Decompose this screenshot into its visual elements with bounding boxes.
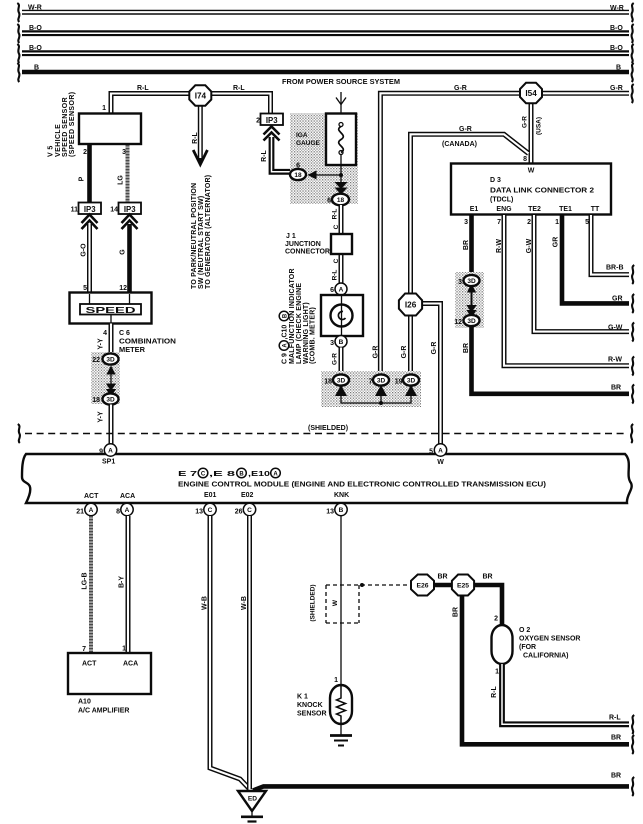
svg-text:3: 3 — [458, 279, 462, 286]
connector octagon E25 — [452, 575, 474, 596]
wire BR-B from TT — [591, 215, 629, 275]
svg-text:W-R: W-R — [28, 5, 42, 12]
svg-text:(SHIELDED): (SHIELDED) — [310, 584, 317, 621]
svg-text:LG-B: LG-B — [82, 572, 89, 589]
svg-text:E26: E26 — [416, 583, 428, 590]
connector 21 A pin — [85, 503, 97, 515]
svg-text:TO PARK/NEUTRAL POSITION: TO PARK/NEUTRAL POSITION — [191, 183, 198, 289]
wire BR E26 to E25 — [434, 583, 452, 588]
svg-text:(TDCL): (TDCL) — [490, 197, 513, 204]
junction chevron arrow up into IP3 11 — [82, 215, 98, 230]
connector 3 B circle MIL — [335, 336, 347, 348]
node B-O1 right brace — [632, 24, 634, 43]
wire B-O bus 2 — [22, 50, 629, 56]
svg-text:SENSOR: SENSOR — [297, 711, 327, 718]
svg-text:ENGINE CONTROL MODULE (ENGINE: ENGINE CONTROL MODULE (ENGINE AND ELECTR… — [178, 482, 546, 489]
svg-text:8: 8 — [116, 509, 120, 516]
svg-text:GR: GR — [553, 237, 560, 248]
svg-text:C 6: C 6 — [119, 330, 130, 337]
component ECM box — [22, 454, 632, 503]
svg-text:R-L: R-L — [233, 85, 245, 92]
svg-text:C: C — [208, 507, 213, 514]
wire G-O to combination meter pin5 — [87, 224, 92, 292]
connector octagon I26 — [399, 294, 422, 316]
wire to gauge junction — [316, 174, 341, 176]
wire G-R I26 bottom to 3D — [408, 314, 413, 371]
svg-text:B: B — [339, 339, 344, 346]
svg-text:CALIFORNIA): CALIFORNIA) — [523, 653, 569, 660]
svg-text:3: 3 — [464, 219, 468, 226]
svg-text:A: A — [89, 507, 94, 514]
ground bar 2 — [248, 820, 257, 822]
wire G-R CANADA from corner into USA line — [411, 134, 529, 294]
svg-text:B-Y: B-Y — [119, 576, 126, 588]
connector 8 A pin — [121, 503, 133, 515]
svg-text:G-W: G-W — [608, 325, 623, 332]
svg-text:C: C — [333, 258, 340, 263]
svg-text:(COMB. METER): (COMB. METER) — [310, 307, 317, 364]
svg-text:G-R: G-R — [459, 126, 472, 133]
svg-text:A: A — [438, 448, 443, 455]
wire B thick from ED ground to right — [253, 786, 629, 790]
wire G-R from MIL 3B to 3D — [339, 348, 344, 372]
svg-text:I74: I74 — [195, 92, 207, 101]
svg-text:FROM POWER SOURCE SYSTEM: FROM POWER SOURCE SYSTEM — [282, 79, 400, 86]
svg-text:METER: METER — [119, 347, 145, 354]
connector 3D pin 12 — [464, 315, 480, 326]
svg-text:3D: 3D — [106, 357, 115, 364]
svg-text:BR-B: BR-B — [606, 265, 624, 272]
svg-text:(SPEED SENSOR): (SPEED SENSOR) — [69, 92, 76, 158]
svg-text:BR: BR — [463, 343, 470, 353]
dashed shielded separator line — [25, 433, 626, 435]
lamp filament — [338, 311, 345, 319]
svg-text:TE1: TE1 — [559, 206, 572, 213]
svg-text:E02: E02 — [241, 492, 254, 499]
svg-text:IP3: IP3 — [84, 205, 96, 214]
connector 3D pin 18 row — [333, 374, 349, 385]
svg-text:ENG: ENG — [496, 206, 512, 213]
svg-text:G-R: G-R — [401, 346, 408, 359]
svg-text:G-W: G-W — [526, 238, 533, 253]
svg-text:,C10: ,C10 — [282, 325, 289, 340]
wire B-Y from pin 8A — [126, 516, 131, 653]
svg-text:E25: E25 — [457, 583, 469, 590]
node G-R right brace — [632, 84, 634, 103]
svg-text:3D: 3D — [467, 278, 476, 285]
wire B bus — [22, 70, 629, 75]
wire LG-B from pin 21A — [89, 516, 93, 653]
svg-text:A: A — [283, 343, 289, 348]
svg-text:R-L: R-L — [491, 685, 498, 697]
wire W-B right from pin 26C — [247, 516, 252, 789]
svg-text:3: 3 — [122, 149, 126, 156]
connector 6 A circle MIL — [335, 283, 347, 295]
component SPEED inner box — [80, 304, 141, 315]
svg-text:A: A — [125, 507, 130, 514]
svg-text:A: A — [108, 448, 113, 455]
stipple patch meter connectors — [91, 352, 120, 404]
svg-text:5: 5 — [429, 449, 433, 456]
svg-text:TE2: TE2 — [528, 206, 541, 213]
svg-text:8: 8 — [523, 156, 527, 163]
svg-text:R-W: R-W — [608, 357, 622, 364]
shield dashed box knock — [326, 585, 410, 623]
lamp circle — [331, 305, 353, 327]
connector I8 left — [290, 169, 306, 180]
svg-text:5: 5 — [585, 219, 589, 226]
junction arrow up into 18 3D — [335, 385, 347, 396]
svg-text:3D: 3D — [337, 378, 346, 385]
svg-text:IGA: IGA — [296, 132, 308, 139]
wire W-B left from pin 13C — [210, 516, 251, 790]
svg-text:13: 13 — [195, 509, 203, 516]
node BR bottom right brace — [632, 735, 634, 754]
svg-text:E 7: E 7 — [178, 471, 197, 478]
svg-text:D 3: D 3 — [490, 177, 501, 184]
node dashed right brace — [631, 424, 633, 443]
wire stub pin5 to inner box — [89, 294, 91, 304]
svg-text:3: 3 — [330, 340, 334, 347]
svg-text:5: 5 — [83, 285, 87, 292]
connector 3D pin 7 row — [373, 374, 389, 385]
wire GR from TE1 — [562, 215, 629, 303]
svg-text:1: 1 — [334, 677, 338, 684]
connector IP3 pin 14 — [119, 203, 142, 215]
stipple patch 3D row — [321, 371, 421, 407]
node R-L right brace — [632, 715, 634, 734]
svg-text:2: 2 — [256, 118, 260, 125]
svg-text:7: 7 — [369, 379, 373, 386]
junction arrow up into 7 3D — [375, 385, 387, 396]
wire BR from E1 to 3D pair — [469, 215, 474, 275]
wire G-R top bus from corner to right — [380, 93, 629, 374]
svg-text:G-R: G-R — [522, 116, 529, 128]
svg-text:IP3: IP3 — [266, 116, 278, 125]
svg-text:4: 4 — [103, 330, 107, 337]
svg-text:B: B — [339, 507, 344, 514]
connector 3D pin 19 row — [403, 374, 419, 385]
svg-text:O 2: O 2 — [519, 627, 530, 634]
connector octagon I74 — [189, 85, 211, 105]
svg-text:BR: BR — [453, 607, 460, 617]
node bottom BR right brace — [632, 777, 634, 796]
connector 26 C pin — [243, 503, 255, 515]
ground ED triangle — [238, 791, 266, 811]
svg-text:BR: BR — [463, 240, 470, 250]
svg-text:SW (NEUTRAL START SW): SW (NEUTRAL START SW) — [198, 196, 205, 289]
junction arrow down to park/neutral — [193, 150, 207, 165]
svg-text:18: 18 — [294, 172, 302, 179]
component J1 junction connector box — [331, 234, 352, 254]
label C 9A C10B rotated — [279, 311, 289, 364]
svg-text:CONNECTOR: CONNECTOR — [285, 249, 330, 256]
wire R-L from IP3 2 down to I8 connector — [272, 137, 292, 172]
svg-text:BR: BR — [611, 385, 621, 392]
label E 7C E 8B E10A — [178, 468, 280, 478]
svg-text:Y-Y: Y-Y — [98, 338, 105, 350]
svg-text:22: 22 — [92, 357, 100, 364]
connector 5 A circle W — [434, 444, 446, 456]
wire R-L from O2 pin1 — [502, 664, 629, 724]
svg-text:COMBINATION: COMBINATION — [119, 339, 176, 346]
wire LG from speed sensor pin3 — [126, 145, 130, 203]
svg-text:SPEED: SPEED — [86, 306, 136, 315]
wire BR E25 to O2 sensor — [474, 585, 502, 625]
svg-text:18: 18 — [337, 197, 345, 204]
connector octagon E26 — [411, 575, 434, 596]
knock sensor zigzag — [337, 686, 346, 723]
svg-text:B: B — [239, 471, 244, 477]
svg-text:,E 8: ,E 8 — [209, 471, 235, 478]
svg-text:G: G — [120, 249, 127, 255]
svg-text:LAMP (CHECK ENGINE: LAMP (CHECK ENGINE — [296, 283, 303, 364]
svg-text:ACT: ACT — [84, 493, 99, 500]
wire R-L below I74 with down arrow — [198, 105, 203, 160]
node junction dot 3D bar — [379, 401, 383, 405]
svg-text:W: W — [528, 168, 535, 175]
wire stub pin12 to inner box — [129, 294, 131, 304]
wire Y-Y to ECM SP1 — [109, 405, 114, 445]
svg-text:19: 19 — [395, 379, 403, 386]
svg-text:ACT: ACT — [82, 661, 97, 668]
component C6 combination meter box — [70, 293, 152, 324]
junction arrow down feed — [336, 98, 346, 105]
wire BR E25 down — [462, 596, 629, 745]
svg-text:W: W — [437, 459, 444, 466]
node BR-B right brace — [632, 265, 634, 284]
node G-W right brace — [632, 323, 634, 342]
wire G-W from TE2 — [534, 215, 629, 332]
svg-text:R-L: R-L — [261, 149, 268, 161]
connector 13 C pin — [204, 503, 216, 515]
wire B-O bus 1 — [22, 30, 629, 36]
svg-text:18: 18 — [92, 397, 100, 404]
stipple patch IGA gauge — [290, 113, 358, 204]
wire stub inner box to pin4 — [110, 315, 112, 323]
svg-text:E01: E01 — [204, 492, 217, 499]
svg-text:,E10: ,E10 — [248, 471, 270, 478]
svg-text:B: B — [34, 65, 39, 72]
svg-text:P: P — [79, 176, 86, 181]
svg-text:R-L: R-L — [192, 131, 199, 143]
svg-text:C 9: C 9 — [282, 353, 289, 364]
svg-text:BR: BR — [437, 574, 447, 581]
svg-text:ACA: ACA — [123, 661, 138, 668]
svg-text:(USA): (USA) — [536, 117, 543, 135]
svg-text:W-B: W-B — [241, 596, 248, 610]
svg-text:W-R: W-R — [610, 5, 624, 12]
component IGA gauge box — [326, 114, 356, 166]
svg-text:KNK: KNK — [334, 492, 349, 499]
svg-text:11: 11 — [71, 207, 79, 214]
svg-text:3D: 3D — [467, 318, 476, 325]
gauge internal wavy element — [339, 123, 344, 183]
svg-text:DATA LINK CONNECTOR 2: DATA LINK CONNECTOR 2 — [490, 188, 594, 195]
svg-text:B: B — [616, 65, 621, 72]
svg-text:(SHIELDED): (SHIELDED) — [308, 425, 348, 432]
svg-text:1: 1 — [122, 646, 126, 653]
connector octagon I54 — [520, 83, 542, 103]
svg-text:KNOCK: KNOCK — [297, 702, 323, 709]
svg-text:A/C AMPLIFIER: A/C AMPLIFIER — [78, 708, 129, 715]
junction arrow up into 19 3D — [405, 385, 417, 396]
svg-text:G-R: G-R — [332, 353, 339, 365]
wire P from speed sensor pin2 — [87, 145, 92, 203]
junction solid double chevron down — [335, 182, 348, 195]
junction bar under 3D row — [341, 393, 411, 403]
svg-text:1: 1 — [495, 669, 499, 676]
junction stub 7 — [380, 393, 382, 403]
svg-text:R-L: R-L — [332, 270, 339, 281]
component A10 A/C amplifier box — [68, 653, 151, 694]
junction double arrow E1 3D pair — [466, 284, 476, 318]
connector 3D pin 18 — [103, 393, 119, 404]
svg-text:14: 14 — [110, 207, 118, 214]
svg-text:9: 9 — [99, 449, 103, 456]
svg-text:3D: 3D — [407, 378, 416, 385]
svg-text:2: 2 — [83, 149, 87, 156]
svg-text:12: 12 — [119, 285, 127, 292]
svg-text:ACA: ACA — [120, 493, 135, 500]
connector IP3 pin 11 — [79, 203, 102, 215]
svg-text:C: C — [247, 507, 252, 514]
svg-text:2: 2 — [527, 219, 531, 226]
connector 13 B pin — [335, 503, 347, 515]
node dashed left brace — [18, 424, 20, 443]
svg-text:W-B: W-B — [202, 596, 209, 610]
svg-text:GAUGE: GAUGE — [296, 140, 321, 147]
node B-O2 right brace — [632, 44, 634, 63]
wire through MIL box — [341, 295, 343, 336]
svg-text:LG: LG — [118, 175, 125, 185]
svg-text:3D: 3D — [377, 378, 386, 385]
svg-text:R-L: R-L — [609, 715, 621, 722]
connector IP3 pin 2 — [261, 114, 284, 126]
wire R-L from speed sensor pin1 to I74 to IP3 — [111, 94, 271, 115]
wire W from KNK pin 13B to knock sensor — [340, 516, 342, 685]
svg-text:B-O: B-O — [29, 45, 42, 52]
svg-text:V 5: V 5 — [48, 145, 55, 157]
ground knock sensor — [330, 724, 352, 746]
component O2 oxygen sensor — [492, 625, 513, 664]
node dot shield — [360, 583, 364, 587]
svg-text:G-R: G-R — [373, 346, 380, 359]
svg-text:JUNCTION: JUNCTION — [285, 241, 321, 248]
svg-text:R-L: R-L — [137, 85, 149, 92]
svg-text:GR: GR — [612, 296, 623, 303]
node junction dot gauge — [339, 173, 343, 177]
svg-text:B: B — [283, 313, 289, 318]
connector 3D pin 3 — [464, 275, 480, 286]
svg-text:A10: A10 — [78, 699, 91, 706]
svg-text:SP1: SP1 — [102, 459, 115, 466]
svg-text:6: 6 — [296, 163, 300, 170]
wire R-W from ENG — [504, 215, 629, 366]
node B-O2 left brace — [17, 44, 19, 63]
junction chevron arrow up into IP3 14 — [122, 215, 138, 230]
svg-text:R-L: R-L — [332, 209, 339, 220]
connector 9 A circle SP1 — [104, 444, 116, 456]
component MIL lamp box — [321, 295, 363, 336]
svg-text:G-O: G-O — [81, 243, 88, 257]
wire BR from 3D to right brace — [472, 326, 630, 394]
svg-text:(CANADA): (CANADA) — [442, 141, 477, 148]
svg-text:B-O: B-O — [610, 25, 623, 32]
ground stub — [251, 811, 253, 816]
svg-text:12: 12 — [454, 319, 462, 326]
wire R-L C to J1 junction connector — [339, 205, 344, 283]
wire W-R bus — [22, 10, 629, 15]
node W-R left brace — [17, 3, 19, 22]
connector 3D pin 22 — [103, 353, 119, 364]
svg-text:C: C — [333, 224, 340, 229]
svg-text:6: 6 — [330, 287, 334, 294]
wire G-R USA vertical from I54 to D3 pin 8 — [529, 103, 534, 164]
svg-text:G-R: G-R — [610, 85, 623, 92]
svg-text:B-O: B-O — [29, 25, 42, 32]
svg-text:13: 13 — [326, 509, 334, 516]
svg-text:I54: I54 — [525, 89, 537, 98]
svg-text:ED: ED — [248, 796, 257, 803]
svg-text:A: A — [273, 471, 278, 477]
component V5 vehicle speed sensor box — [79, 114, 141, 145]
junction chevron arrow up into IP3 2 — [264, 127, 280, 141]
svg-text:W: W — [332, 599, 339, 606]
svg-text:E1: E1 — [470, 206, 479, 213]
node GR right brace — [632, 294, 634, 313]
svg-text:BR: BR — [482, 574, 492, 581]
svg-text:26: 26 — [235, 509, 243, 516]
node W-R right brace — [632, 3, 634, 22]
svg-text:VEHICLE: VEHICLE — [55, 124, 62, 157]
ground bar — [241, 815, 263, 818]
svg-text:TT: TT — [591, 206, 600, 213]
svg-text:TO GENERATOR (ALTERNATOR): TO GENERATOR (ALTERNATOR) — [205, 175, 212, 289]
svg-text:K 1: K 1 — [297, 694, 308, 701]
svg-text:IP3: IP3 — [124, 205, 136, 214]
svg-text:OXYGEN SENSOR: OXYGEN SENSOR — [519, 636, 580, 643]
svg-text:21: 21 — [76, 509, 84, 516]
wire Y-Y from meter pin4 — [109, 324, 114, 355]
svg-text:SPEED SENSOR: SPEED SENSOR — [62, 97, 69, 157]
wire G to combination meter pin12 — [127, 224, 132, 292]
svg-text:3D: 3D — [106, 397, 115, 404]
svg-text:7: 7 — [497, 219, 501, 226]
wire G-R I26 right to ECM pin 5A — [421, 304, 441, 445]
svg-text:6: 6 — [327, 198, 331, 205]
svg-text:C: C — [201, 471, 206, 477]
svg-text:1: 1 — [102, 105, 106, 112]
svg-text:G-R: G-R — [454, 85, 467, 92]
svg-text:18: 18 — [324, 379, 332, 386]
node BR right brace — [632, 385, 634, 404]
svg-text:G-R: G-R — [431, 342, 438, 355]
wire power feed into IGA gauge — [340, 92, 342, 124]
node B right brace — [632, 63, 634, 82]
svg-text:BR: BR — [611, 773, 621, 780]
node R-W right brace — [632, 357, 634, 376]
junction arrow left into I8 — [308, 171, 317, 180]
svg-text:B-O: B-O — [610, 45, 623, 52]
svg-text:J 1: J 1 — [286, 233, 296, 240]
svg-text:2: 2 — [494, 616, 498, 623]
svg-text:Y-Y: Y-Y — [98, 411, 105, 423]
svg-text:1: 1 — [555, 219, 559, 226]
svg-text:BR: BR — [611, 735, 621, 742]
node B-O1 left brace — [17, 24, 19, 43]
svg-text:A: A — [339, 287, 344, 294]
